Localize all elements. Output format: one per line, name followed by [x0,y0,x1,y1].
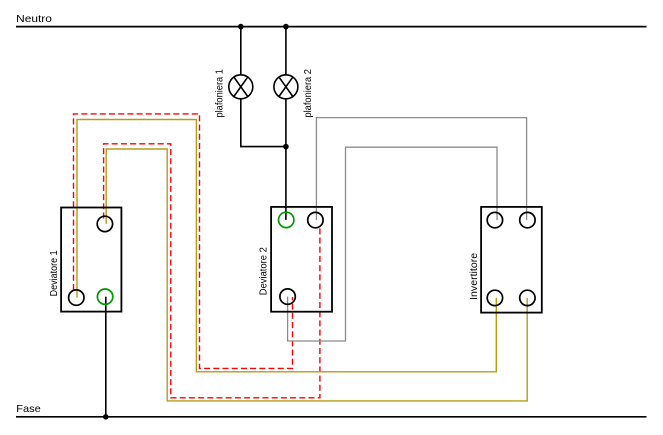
wire lamp2 bottom to Deviatore2 TL [285,99,287,220]
wire gray link 1 (Deviatore2 TR to Invertitore TR) [316,118,526,221]
wire neutro to lamp2 [285,27,287,75]
wire neutro to lamp1 [240,27,242,75]
Fase rail [16,416,647,418]
terminal Invertitore BR [520,290,535,305]
wire gray link 2 (Deviatore2 BL to Invertitore TL) [288,147,497,341]
junction dot neutro-lamp1 [238,24,244,30]
lamp plafoniera 1 [229,75,253,99]
terminal Invertitore TR [520,212,535,227]
switch Deviatore 1 box [61,208,121,312]
svg-text:Deviatore 2: Deviatore 2 [257,247,269,295]
terminal Deviatore2 TR [308,212,323,227]
Neutro rail [16,26,647,28]
svg-text:Deviatore 1: Deviatore 1 [48,250,60,296]
terminal Invertitore BL [487,290,502,305]
switch Invertitore box [481,207,542,313]
wire yellow navetta 1 (Deviatore1 BL to Invertitore BL) [77,120,496,372]
wire yellow navetta 2 (Deviatore1 TR to Invertitore BR) [106,149,527,401]
terminal Invertitore TL [487,212,502,227]
lamp plafoniera 2 [274,75,298,99]
junction dot fase [103,414,109,420]
terminal Deviatore1 TR [97,216,112,231]
terminal Deviatore1 BR (common, green) [97,289,112,304]
junction dot lamp link [283,144,289,150]
svg-text:plafoniera 1: plafoniera 1 [214,69,226,118]
conduit red dashed A (Deviatore1 BL to Deviatore2 BL) [74,114,293,369]
terminal Deviatore2 BL [280,289,295,304]
svg-text:plafoniera 2: plafoniera 2 [302,69,314,118]
svg-text:Fase: Fase [16,403,41,415]
wire lamp1 bottom to junction [241,99,286,147]
svg-text:Invertitore: Invertitore [468,253,480,300]
terminal Deviatore1 BL [69,290,84,305]
switch Deviatore 2 box [271,207,332,312]
junction dot neutro-lamp2 [283,24,289,30]
conduit red dashed B (Deviatore1 TR to Deviatore2 TR) [104,144,320,398]
terminal Deviatore2 TL (common, green) [279,212,294,227]
svg-text:Neutro: Neutro [16,13,52,25]
wire Deviatore1 BR to Fase [105,297,107,417]
